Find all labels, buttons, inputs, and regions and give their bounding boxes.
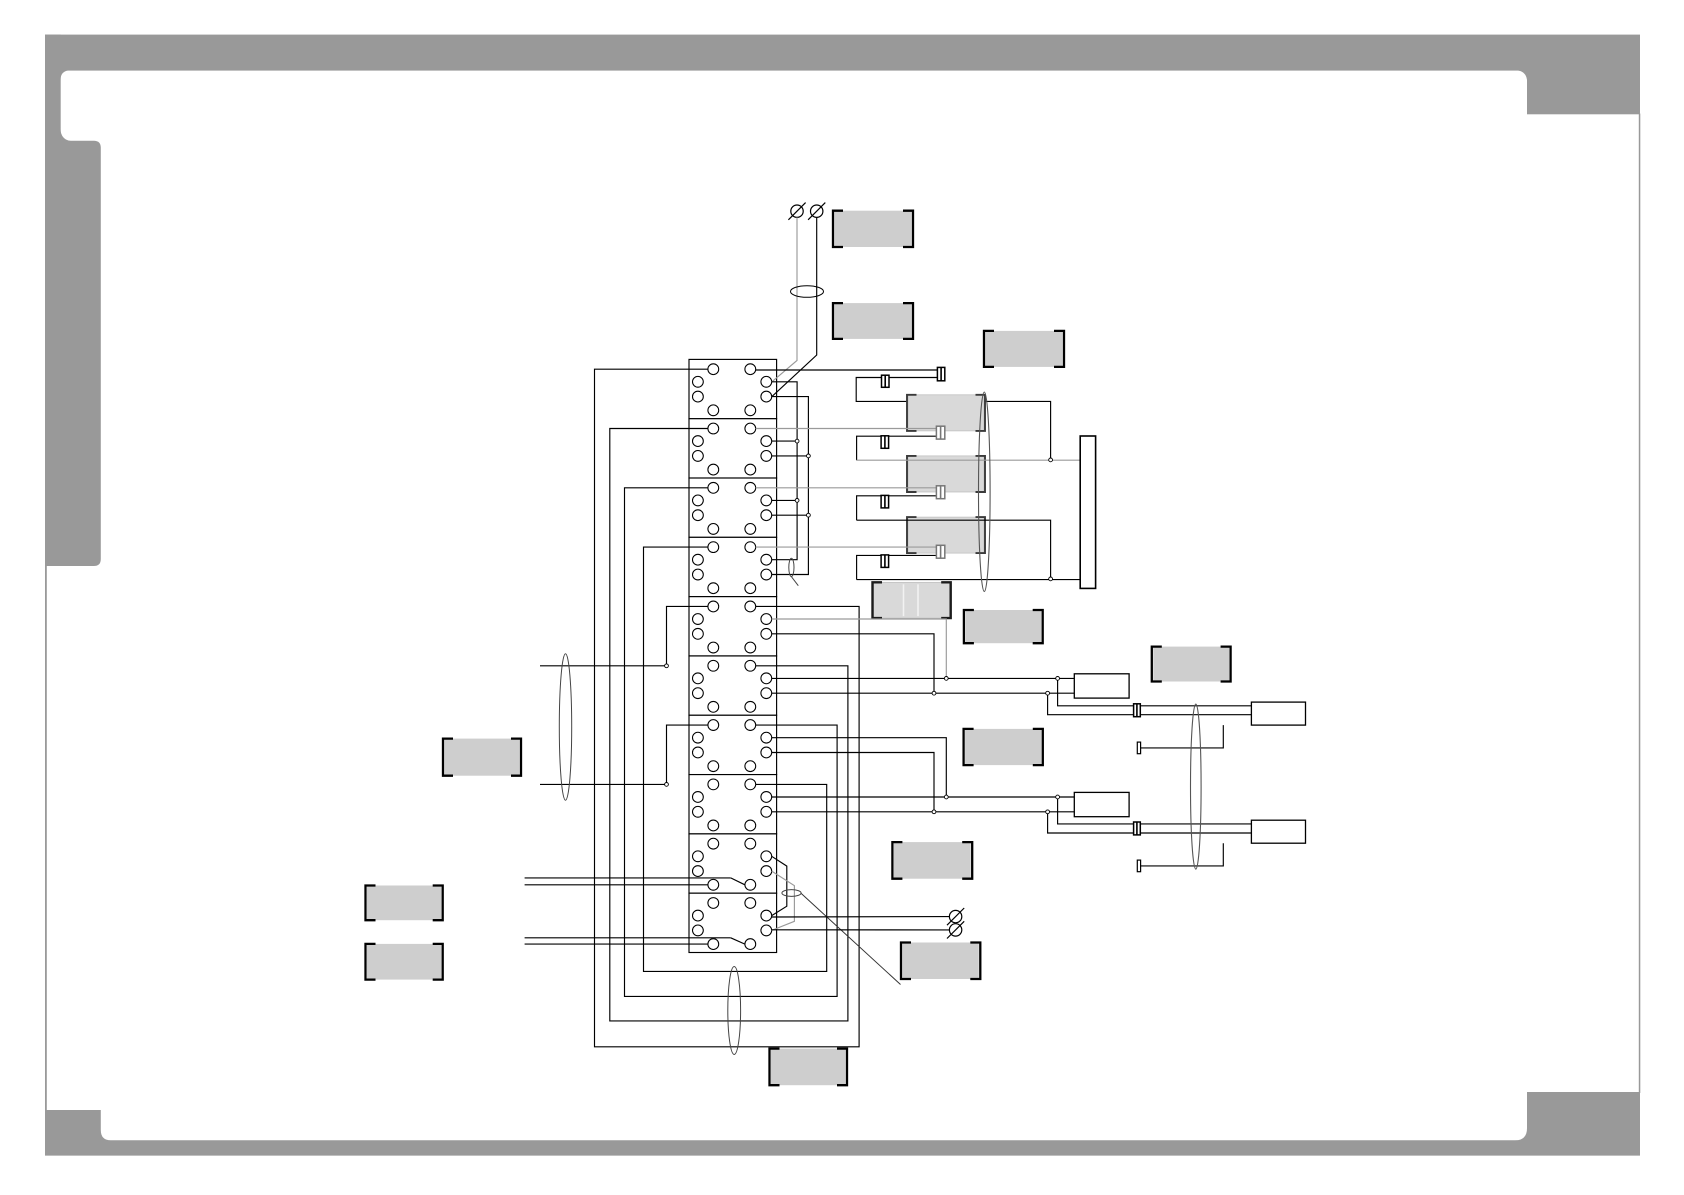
label box L3 (redacted) (984, 331, 1064, 367)
label box L12 (redacted) (770, 1049, 848, 1086)
wire CN4-A to CN8-B loop (644, 547, 827, 971)
valve M2 (907, 456, 985, 492)
connector block CN10 (689, 893, 777, 952)
junction (1046, 810, 1050, 814)
leader line to label (801, 893, 901, 984)
inline connector X9 (1134, 704, 1141, 717)
label box L10 (redacted) (366, 886, 443, 921)
wire K2 to R2 lead1 (1058, 797, 1252, 824)
junction (944, 677, 948, 681)
wire X2 to X1 (889, 377, 938, 379)
connector block CN2 (689, 419, 777, 478)
wire X2 loop to bus node N1 (856, 378, 1050, 460)
wire CN3-A to CN7-B loop (625, 488, 838, 997)
wire grp1 black tap (772, 634, 934, 693)
component box K2 (1074, 792, 1129, 816)
junction J1 (665, 664, 669, 668)
connector block CN1 (689, 359, 777, 418)
wire to K2 upper (772, 796, 1075, 798)
connector X3 of M1 (936, 426, 944, 439)
label box L6 (redacted) (964, 729, 1043, 765)
component box K1 (1074, 674, 1129, 698)
wire bus4 to terminal bar (857, 579, 1081, 581)
label box L11 (redacted) (366, 944, 443, 980)
wire CN1-A to CN5-B loop (595, 369, 860, 1047)
motor M0 (873, 582, 951, 618)
inline connector X4 (881, 436, 889, 449)
label box L1 (redacted) (833, 211, 913, 247)
wire grp2 D tap (772, 738, 947, 797)
wire CN9-D to CN10-D (772, 856, 787, 915)
connector block CN8 (689, 775, 777, 834)
wire K1 to R1 lead2 (1048, 693, 1252, 715)
wire feeder CN9-G (525, 884, 708, 886)
connector block CN4 (689, 537, 777, 596)
junction V2a (807, 454, 811, 458)
tie marker CN4 (789, 558, 794, 576)
wire node J2 to CN7-A (667, 725, 708, 784)
valve M1 (907, 395, 985, 431)
wire K1 to R1 lead1 (1058, 678, 1252, 705)
valve M3 (907, 517, 985, 553)
wire X8 to X7 (889, 554, 937, 556)
wire feeder to node J1 (540, 665, 667, 667)
junction (1056, 677, 1060, 681)
tie marker CN9/10 (782, 890, 801, 897)
inline connector X8 (881, 555, 889, 568)
inline connector X2 (882, 375, 890, 387)
label box L4 (redacted) (1152, 647, 1231, 682)
open terminal P3 (947, 908, 964, 925)
wire to K2 lower (772, 811, 1075, 813)
junction N1 (1049, 458, 1053, 462)
junction (1056, 795, 1060, 799)
wire X8 down to bus (857, 555, 882, 579)
wire grp1 D tap (772, 619, 947, 678)
label box L9 (redacted) (443, 739, 521, 776)
wire CN3-F stub (772, 514, 809, 516)
wire CN10-F to open terminal (772, 929, 950, 931)
wire bus CN1-F/CN4-F (772, 397, 809, 575)
switch lever CN10 (731, 938, 745, 944)
wire bus CN1-D/CN4-D (772, 382, 797, 560)
wire node J1 to CN5-A (667, 606, 708, 665)
component box R2 (1251, 820, 1305, 843)
connector block CN7 (689, 715, 777, 774)
terminal stub T1 (1137, 742, 1140, 754)
label box L2 (redacted) (833, 303, 913, 339)
wire X4 to X3 (889, 435, 937, 437)
wire to K1 upper (772, 677, 1075, 679)
junction V1a (795, 439, 799, 443)
wire R1 to T1 (1141, 725, 1224, 748)
right harness loop (1191, 704, 1202, 869)
label box L5 (redacted) (964, 610, 1043, 643)
wire bus3 to node N2 (857, 520, 1051, 579)
wire to K1 lower (772, 692, 1075, 694)
wire feeder to node J2 (540, 783, 667, 785)
wire CN3-D stub (772, 499, 797, 501)
wire X4 down to bus (857, 436, 882, 460)
terminal bar TB1 (1080, 436, 1095, 588)
junction V1b (795, 499, 799, 503)
connector X5 of M2 (936, 486, 944, 499)
wire grp2 black tap (772, 753, 934, 812)
wire CN2-A to CN6-B loop (610, 429, 848, 1021)
wire CN2-F stub (772, 455, 809, 457)
switch lever CN9 (731, 878, 745, 885)
wire P2 to CN1-F (772, 217, 817, 396)
wire CN2-D stub (772, 440, 797, 442)
open terminal P4 (947, 921, 964, 938)
wire P1 to CN1-D (772, 217, 797, 381)
wire feeder CN10-G (525, 943, 708, 945)
connector block CN3 (689, 478, 777, 537)
junction J2 (665, 783, 669, 787)
tie tail CN4 (792, 577, 799, 586)
wire feeder CN9 lever (525, 877, 731, 879)
label box L8 (redacted) (901, 943, 980, 980)
wire CN9-F to CN10-F (772, 871, 795, 930)
junction (932, 810, 936, 814)
wire CN10-D to open terminal (772, 916, 950, 918)
wire CN2-B to M1 connector (756, 428, 937, 430)
connector block CN6 (689, 656, 777, 715)
wire X6 down to bus (857, 496, 882, 520)
connector block CN9 (689, 834, 777, 893)
wire CN4-B to M3 connector (756, 546, 937, 548)
terminal stub T2 (1137, 860, 1140, 872)
wire R2 to T2 (1141, 843, 1224, 866)
connector X7 of M3 (936, 545, 944, 558)
inline connector X10 (1134, 822, 1141, 835)
wire CN1-B to X1 (756, 369, 938, 371)
harness loop tie (728, 967, 741, 1055)
junction V2b (807, 513, 811, 517)
wire bus2 to terminal bar (857, 459, 1081, 461)
junction (932, 691, 936, 695)
connector block CN5 (689, 597, 777, 656)
wire K2 to R2 lead2 (1048, 812, 1252, 833)
junction N2 (1049, 577, 1053, 581)
junction (944, 795, 948, 799)
left harness tie (559, 654, 571, 800)
wire CN3-B to M2 connector (756, 487, 937, 489)
label box L7 (redacted) (892, 842, 972, 879)
inline connector X1 (937, 367, 944, 380)
wire X6 to X5 (889, 495, 937, 497)
harness tie marker (791, 286, 824, 298)
inline connector X6 (881, 495, 889, 508)
valve harness loop (979, 392, 991, 592)
component box R1 (1251, 702, 1305, 725)
wire feeder CN10 lever (525, 937, 731, 939)
open terminal P1 (788, 203, 805, 220)
open terminal P2 (808, 203, 825, 220)
junction (1046, 691, 1050, 695)
